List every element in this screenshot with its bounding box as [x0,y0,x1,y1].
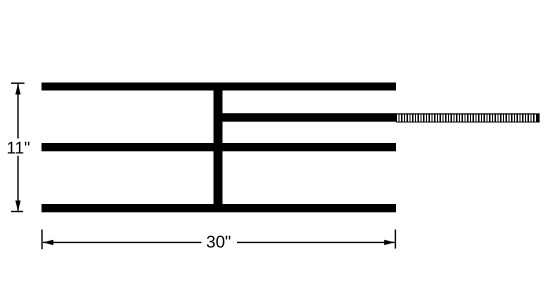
dimension label 11in [6,138,30,157]
dimension 11in line upper segment [17,84,19,139]
dimension 30in extension tick left [41,230,43,250]
dimension 30in arrowhead right [384,240,395,245]
dimension label 30in [206,232,231,251]
top rail [42,83,397,91]
threaded rod [396,113,540,122]
bottom rail [42,204,397,212]
dimension 11in arrowhead down [15,201,20,212]
svg-text:11": 11" [6,138,30,157]
middle rail [42,143,397,151]
dimension 30in line left segment [43,241,202,243]
svg-text:30": 30" [206,232,231,251]
dimension 30in line right segment [237,241,395,243]
dimension 30in arrowhead left [43,240,54,245]
dimension 30in extension tick right [394,230,396,249]
vertical cross member [214,83,223,212]
dimension 11in arrowhead up [15,84,20,95]
dimension 11in line lower segment [17,156,19,211]
dimension 11in extension tick bottom [11,211,23,213]
upper tongue rail [218,113,396,122]
dimension 11in extension tick top [11,82,25,84]
